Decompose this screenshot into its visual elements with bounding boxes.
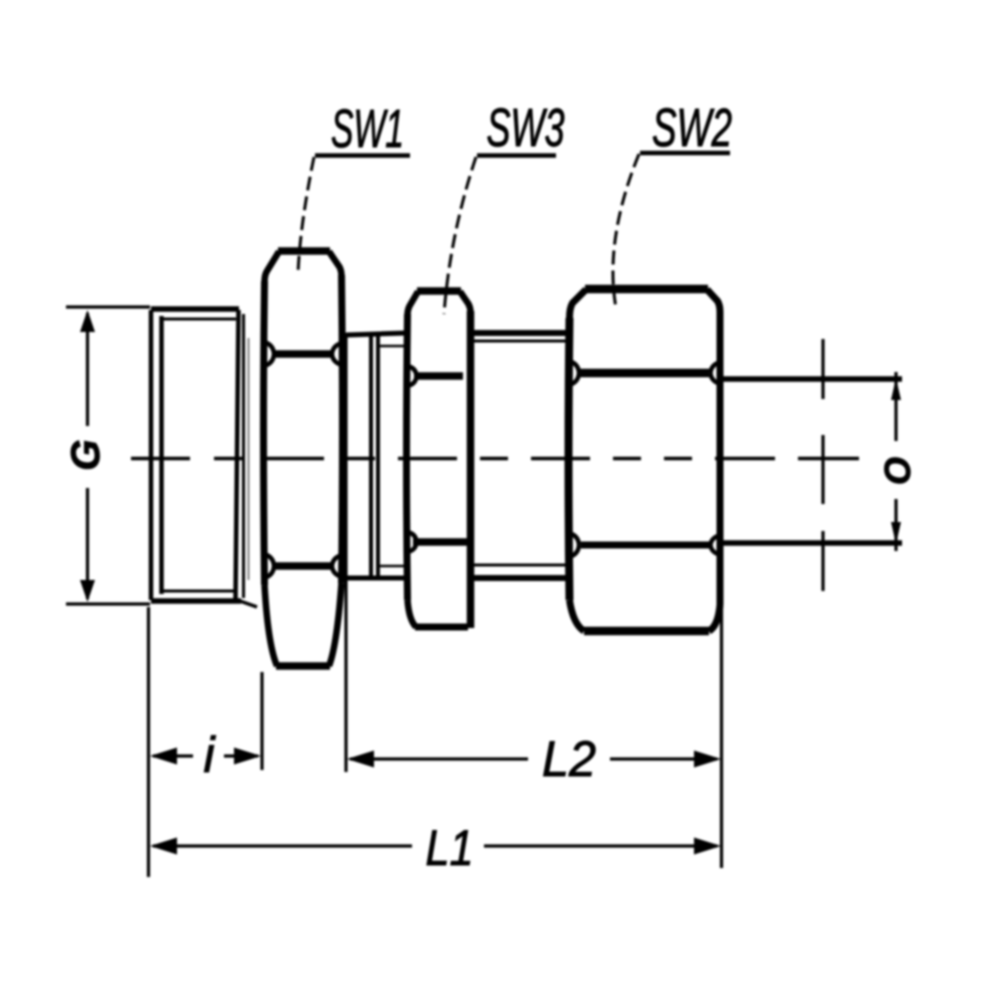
- arrow L2 left: [347, 751, 374, 768]
- label SW2: [640, 98, 732, 158]
- arrow O top: [891, 378, 901, 400]
- hex nut SW2: [569, 289, 721, 631]
- arrow i left: [150, 748, 177, 765]
- leader SW1: [298, 157, 314, 274]
- arrow O bottom: [891, 522, 901, 544]
- dimension G: [66, 307, 150, 604]
- arrow L1 right: [694, 838, 721, 855]
- tube cut chain line: [821, 339, 824, 591]
- svg-text:L2: L2: [542, 731, 596, 787]
- arrow G bottom: [80, 580, 95, 602]
- label SW1: [315, 99, 410, 159]
- arrow L2 right: [694, 751, 721, 768]
- hex nut SW1: [264, 251, 343, 666]
- hex locknut SW3: [407, 291, 471, 628]
- body section between SW3 and SW2: [474, 333, 569, 578]
- dimension i: [149, 607, 263, 877]
- label SW3: [477, 98, 565, 158]
- arrow L1 left: [150, 838, 177, 855]
- svg-text:L1: L1: [426, 820, 474, 876]
- svg-text:O: O: [877, 457, 918, 485]
- dimension L2: [346, 333, 722, 868]
- arrow i right: [234, 748, 261, 765]
- svg-text:SW2: SW2: [652, 98, 732, 158]
- svg-text:G: G: [64, 439, 108, 470]
- svg-text:i: i: [203, 727, 216, 783]
- leader SW2: [613, 154, 639, 308]
- svg-text:SW3: SW3: [487, 98, 565, 158]
- washer section between SW1 and SW3: [346, 333, 406, 578]
- dimension O: [894, 372, 897, 551]
- svg-text:SW1: SW1: [331, 99, 404, 159]
- male thread stud G: [151, 309, 257, 607]
- arrow G top: [80, 310, 95, 332]
- leader SW3: [444, 157, 476, 314]
- centerline: [131, 457, 859, 461]
- tube on right: [720, 379, 902, 543]
- dimension L1: [153, 844, 717, 847]
